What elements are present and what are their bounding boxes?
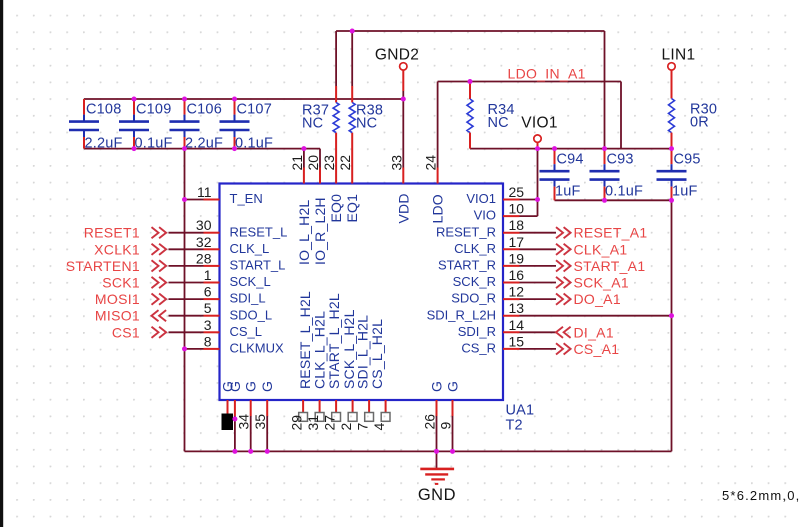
pin 24 top stub: [437, 168, 439, 184]
svg-text:8: 8: [204, 333, 212, 349]
svg-text:RESET_R: RESET_R: [436, 224, 496, 239]
svg-text:G: G: [259, 381, 275, 392]
svg-text:MOSI1: MOSI1: [95, 291, 140, 307]
pin 25 (VIO1) right stub: [503, 199, 520, 201]
junction (134,148.6): [132, 146, 137, 151]
svg-text:T2: T2: [506, 418, 523, 434]
svg-text:NC: NC: [356, 116, 377, 132]
junction (352.2,31.0): [350, 29, 355, 34]
chevron CLK_A1: [556, 244, 571, 255]
wire STARTEN1 stub: [169, 265, 204, 267]
resistor R37: [302, 86, 339, 133]
wire pin36a elbow: [227, 416, 229, 419]
pin 21 top stub: [303, 168, 305, 184]
svg-text:G: G: [227, 381, 243, 392]
capacitor C108: [69, 99, 123, 152]
svg-text:VIO1: VIO1: [466, 191, 496, 206]
wire pin10 stub: [520, 215, 538, 217]
svg-text:5: 5: [204, 300, 212, 316]
chevron XCLK1: [152, 244, 167, 255]
wire CLK_A1 stub: [520, 248, 557, 250]
svg-text:VIO1: VIO1: [521, 115, 558, 132]
port GND2: [375, 47, 419, 92]
svg-text:SCK_R: SCK_R: [453, 274, 496, 289]
svg-text:EQ1: EQ1: [344, 194, 360, 223]
pin 28 (START_L) left stub: [204, 265, 220, 267]
resistor R30: [669, 70, 718, 149]
svg-text:IO_R_L2H: IO_R_L2H: [312, 197, 328, 265]
chevron DO_A1: [556, 294, 571, 305]
wire START_A1 stub: [520, 265, 557, 267]
NC pin 31 box: [315, 413, 324, 422]
pin 18 (RESET_R) right stub: [503, 232, 520, 234]
svg-text:13: 13: [509, 300, 525, 316]
pin 6 (SDI_L) left stub: [204, 298, 220, 300]
svg-text:LDO_IN_A1: LDO_IN_A1: [508, 66, 586, 82]
svg-text:26: 26: [422, 414, 438, 430]
svg-text:RESET_L: RESET_L: [230, 224, 288, 239]
svg-text:CLK_L: CLK_L: [230, 241, 270, 256]
svg-text:0.1uF: 0.1uF: [605, 184, 643, 200]
junction (452.5,451.4): [450, 449, 455, 454]
svg-text:SCK_A1: SCK_A1: [574, 275, 630, 291]
wire pin11 stub: [185, 199, 204, 201]
svg-text:1uF: 1uF: [672, 184, 698, 200]
svg-text:LIN1: LIN1: [662, 47, 696, 64]
bottom pin red stub: [250, 400, 252, 416]
svg-text:C106: C106: [187, 102, 222, 118]
svg-text:15: 15: [509, 333, 525, 349]
chevron RESET1: [152, 227, 167, 238]
capacitor C95: [657, 149, 701, 201]
pin 23 top stub: [335, 133, 337, 184]
capacitor C93: [590, 149, 644, 201]
svg-text:25: 25: [509, 184, 525, 200]
svg-text:START_L: START_L: [230, 258, 286, 273]
pin 30 (RESET_L) left stub: [204, 232, 220, 234]
wire pin35 down: [266, 416, 268, 451]
svg-text:30: 30: [196, 217, 212, 233]
wire right cap bottom rail: [555, 199, 672, 201]
NC pin 2 box: [348, 413, 357, 422]
svg-text:GND: GND: [418, 486, 456, 504]
svg-text:CLK_R: CLK_R: [454, 241, 496, 256]
svg-text:35: 35: [252, 414, 268, 430]
ground GND: [418, 469, 456, 504]
bottom pin red stub: [436, 400, 438, 416]
svg-text:NC: NC: [302, 116, 323, 132]
wire pin33 vertical: [402, 99, 404, 168]
svg-text:7: 7: [355, 423, 371, 431]
svg-text:C107: C107: [237, 102, 272, 118]
wire LDO_IN_A1 horizontal: [438, 81, 621, 83]
junction (436.5,451.4): [434, 449, 439, 454]
wire left cap top rail: [84, 98, 403, 100]
svg-text:CLK_A1: CLK_A1: [574, 241, 628, 257]
NC pin 27 box: [332, 413, 341, 422]
svg-text:1: 1: [204, 267, 212, 283]
resistor R38: [349, 86, 383, 133]
svg-text:CS_R: CS_R: [461, 341, 496, 356]
junction (537.5,199.5): [535, 197, 540, 202]
svg-text:CLKMUX: CLKMUX: [230, 341, 285, 356]
svg-text:14: 14: [509, 317, 525, 333]
svg-text:9: 9: [438, 422, 454, 430]
NC pin 2 stub: [352, 400, 354, 413]
wire XCLK1 stub: [169, 248, 204, 250]
svg-text:SDO_R: SDO_R: [451, 291, 496, 306]
junction (184.5,348.9): [182, 346, 187, 351]
junction (604.5,148.6): [602, 146, 607, 151]
svg-text:MISO1: MISO1: [95, 308, 140, 324]
svg-text:G: G: [429, 381, 445, 392]
svg-text:START_R: START_R: [438, 258, 496, 273]
svg-text:33: 33: [388, 155, 404, 171]
op-amp U-A1 IC body: [220, 184, 504, 401]
svg-text:32: 32: [196, 234, 212, 250]
pin 15 (CS_R) right stub: [503, 348, 520, 350]
junction (234.9,451.4): [232, 449, 237, 454]
sheet left border: [0, 0, 3, 527]
svg-text:DO_A1: DO_A1: [574, 291, 621, 307]
chevron CS1: [152, 327, 167, 338]
wire RESET_A1 stub: [520, 232, 557, 234]
svg-text:21: 21: [289, 155, 305, 171]
capacitor C109: [119, 99, 173, 152]
svg-text:23: 23: [321, 155, 337, 171]
wire pin34 down: [250, 416, 252, 451]
junction (267.2,451.4): [265, 449, 270, 454]
NC pin 29 stub: [302, 400, 304, 413]
svg-text:C94: C94: [557, 152, 584, 168]
svg-text:31: 31: [305, 415, 321, 431]
pin 14 (SDI_R) right stub: [503, 331, 520, 333]
junction (403.3,99.0): [401, 97, 406, 102]
junction (671.5,200.3): [669, 198, 674, 203]
svg-text:VIO: VIO: [474, 208, 496, 223]
svg-text:G: G: [243, 381, 259, 392]
svg-text:16: 16: [509, 267, 525, 283]
svg-text:UA1: UA1: [506, 403, 535, 419]
NC pin 31 stub: [319, 400, 321, 413]
svg-text:12: 12: [509, 284, 525, 300]
pin 32 (CLK_L) left stub: [204, 248, 220, 250]
junction (184.5,99.0): [182, 97, 187, 102]
junction (184.5,148.6): [182, 146, 187, 151]
svg-text:VDD: VDD: [395, 193, 411, 223]
svg-text:STARTEN1: STARTEN1: [66, 258, 140, 274]
pin 10 (VIO) right stub: [503, 215, 520, 217]
wire DI_A1 stub: [520, 331, 557, 333]
wire CS1 stub: [169, 331, 204, 333]
svg-text:0.1uF: 0.1uF: [135, 136, 173, 152]
junction (470,81.5): [468, 79, 473, 84]
svg-text:LDO: LDO: [430, 194, 446, 223]
wire pin21 vertical: [303, 149, 305, 168]
svg-text:2.2uF: 2.2uF: [85, 136, 123, 152]
svg-text:RESET_L_H2L: RESET_L_H2L: [297, 291, 313, 389]
resistor R34: [467, 82, 515, 149]
wire CS_A1 stub: [520, 348, 557, 350]
chevron SCK_A1: [556, 277, 571, 288]
svg-text:24: 24: [423, 155, 439, 171]
chevron MISO1: [152, 310, 167, 321]
svg-text:17: 17: [509, 234, 525, 250]
wire pin20 vertical: [319, 149, 321, 168]
svg-text:2: 2: [338, 423, 354, 431]
junction (134,99.0): [132, 97, 137, 102]
svg-text:RESET_A1: RESET_A1: [574, 225, 648, 241]
svg-text:EQ0: EQ0: [328, 194, 344, 223]
NC pin 29 box: [299, 413, 308, 422]
bottom pin red stub: [234, 400, 236, 416]
pin 19 (START_R) right stub: [503, 265, 520, 267]
junction (671.5,148.6): [669, 146, 674, 151]
svg-text:10: 10: [509, 201, 525, 217]
svg-text:34: 34: [236, 414, 252, 430]
svg-text:T_EN: T_EN: [230, 191, 263, 206]
NC pin 7 stub: [368, 400, 370, 413]
wire RESET1 stub: [169, 232, 204, 234]
wire pin25 stub: [520, 199, 538, 201]
svg-text:CS_L: CS_L: [230, 324, 263, 339]
junction (234.9,419): [232, 417, 237, 422]
wire long right vertical: [671, 200, 673, 451]
pin 13 (SDI_R_L2H) right stub: [503, 315, 520, 317]
junction (554.5,148.6): [552, 146, 557, 151]
svg-text:XCLK1: XCLK1: [94, 241, 140, 257]
wire LDO_IN_A1 down to VIO rail: [620, 82, 622, 149]
svg-text:6: 6: [204, 284, 212, 300]
svg-text:3: 3: [204, 317, 212, 333]
wire pin26 down: [436, 416, 438, 451]
capacitor C94: [540, 149, 584, 201]
svg-text:1uF: 1uF: [555, 184, 581, 200]
wire pin24 vertical: [437, 82, 439, 168]
pin 3 (CS_L) left stub: [204, 331, 220, 333]
svg-text:SCK_L: SCK_L: [230, 274, 271, 289]
wire long left vertical: [184, 149, 186, 452]
svg-text:DI_A1: DI_A1: [574, 324, 614, 340]
svg-text:CS_L_H2L: CS_L_H2L: [369, 319, 385, 389]
svg-text:G: G: [445, 381, 461, 392]
svg-text:20: 20: [305, 155, 321, 171]
wire R38 top vertical: [351, 31, 353, 86]
chevron DI_A1: [556, 327, 571, 338]
wire SCK_A1 stub: [520, 282, 557, 284]
wire GND stub: [436, 451, 438, 468]
pin 1 (SCK_L) left stub: [204, 282, 220, 284]
svg-text:28: 28: [196, 250, 212, 266]
svg-text:CS_A1: CS_A1: [574, 341, 620, 357]
wire pin13 net: [520, 315, 672, 317]
pin 5 (SDO_L) left stub: [204, 315, 220, 317]
port LIN1: [662, 47, 696, 71]
wire VIO vertical: [537, 149, 539, 217]
chevron SCK1: [152, 277, 167, 288]
svg-text:C93: C93: [607, 152, 634, 168]
pin 8 (CLKMUX) left stub: [204, 348, 220, 350]
wire pin36 down: [234, 416, 236, 451]
svg-text:5*6.2mm,0,: 5*6.2mm,0,: [722, 488, 800, 503]
svg-text:CS1: CS1: [112, 324, 140, 340]
wire DO_A1 stub: [520, 298, 557, 300]
pin 33 top stub: [402, 168, 404, 184]
pin 36/1 number blob: [222, 414, 234, 431]
wire pin9 down: [452, 416, 454, 451]
wire left cap bottom rail: [84, 148, 320, 150]
chevron MOSI1: [152, 294, 167, 305]
NC pin 27 stub: [335, 400, 337, 413]
svg-text:RESET1: RESET1: [84, 225, 140, 241]
svg-text:29: 29: [289, 415, 305, 431]
bottom pin red stub: [452, 400, 454, 416]
svg-text:C109: C109: [136, 102, 171, 118]
NC pin 4 stub: [385, 400, 387, 413]
svg-text:18: 18: [509, 217, 525, 233]
pin 17 (CLK_R) right stub: [503, 248, 520, 250]
chevron START_A1: [556, 260, 571, 271]
svg-text:19: 19: [509, 250, 525, 266]
svg-text:IO_L_H2L: IO_L_H2L: [296, 200, 312, 265]
chevron CS_A1: [556, 343, 571, 354]
wire VIO1 rail: [470, 148, 672, 150]
wire MOSI1 stub: [169, 298, 204, 300]
wire bottom rail: [185, 450, 672, 452]
wire R37 top vertical: [335, 31, 337, 86]
NC pin 7 box: [365, 413, 374, 422]
svg-text:SDI_L: SDI_L: [230, 291, 266, 306]
port VIO1: [521, 115, 558, 149]
svg-text:22: 22: [337, 155, 353, 171]
junction (250.7,451.4): [248, 449, 253, 454]
junction (671.5,315.7): [669, 313, 674, 318]
svg-text:CLK_L_H2L: CLK_L_H2L: [312, 311, 328, 389]
bottom pin red stub: [266, 400, 268, 416]
wire C93 top vertical: [604, 31, 606, 149]
NC pin 4 box: [381, 413, 390, 422]
svg-text:11: 11: [197, 184, 212, 200]
svg-text:START_L_H2L: START_L_H2L: [326, 293, 342, 389]
svg-text:START_A1: START_A1: [574, 258, 646, 274]
junction (303.9,148.6): [301, 146, 306, 151]
wire top rail y=31: [336, 30, 604, 32]
pin 11 (T_EN) left stub: [204, 199, 220, 201]
svg-text:NC: NC: [488, 115, 509, 131]
wire SCK1 stub: [169, 282, 204, 284]
pin 16 (SCK_R) right stub: [503, 282, 520, 284]
pin 22 top stub: [351, 133, 353, 184]
svg-text:0.1uF: 0.1uF: [235, 136, 273, 152]
wire GND2 stub: [402, 91, 404, 99]
svg-text:0R: 0R: [690, 115, 709, 131]
svg-text:GND2: GND2: [375, 47, 419, 64]
capacitor C107: [220, 99, 274, 152]
wire pin8 stub: [185, 348, 204, 350]
junction (537.5,148.6): [535, 146, 540, 151]
svg-text:SDI_R_L2H: SDI_R_L2H: [427, 307, 496, 322]
chevron STARTEN1: [152, 260, 167, 271]
svg-text:C108: C108: [86, 102, 121, 118]
svg-text:C95: C95: [674, 152, 701, 168]
svg-text:27: 27: [322, 415, 338, 431]
junction (604.5,200.3): [602, 198, 607, 203]
wire MISO1 stub: [169, 315, 204, 317]
svg-text:2.2uF: 2.2uF: [185, 136, 223, 152]
capacitor C106: [170, 99, 224, 152]
svg-text:4: 4: [371, 423, 387, 431]
junction (184.5,199.5): [182, 197, 187, 202]
junction (234.5,99.0): [232, 97, 237, 102]
svg-text:SDO_L: SDO_L: [230, 307, 273, 322]
svg-text:SCK1: SCK1: [102, 275, 140, 291]
svg-text:SDI_R: SDI_R: [458, 324, 496, 339]
bottom pin red stub: [227, 400, 229, 416]
pin 12 (SDO_R) right stub: [503, 298, 520, 300]
chevron RESET_A1: [556, 227, 571, 238]
junction (234.5,148.6): [232, 146, 237, 151]
pin 20 top stub: [319, 168, 321, 184]
